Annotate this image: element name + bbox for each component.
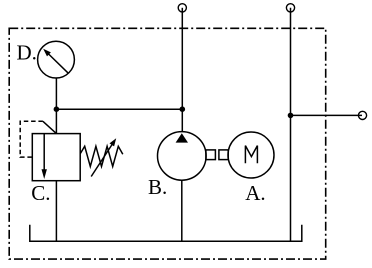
svg-text:C.: C. [31, 181, 50, 205]
wire: valve C outlet to reservoir [55, 181, 57, 242]
relief valve C adjustment arrowhead [110, 138, 117, 146]
svg-text:D.: D. [17, 41, 37, 65]
relief valve C pilot diagonal tap [43, 121, 57, 133]
relief valve C spring [80, 146, 123, 166]
motor A body [228, 132, 274, 178]
port top-right [286, 4, 294, 12]
enclosure boundary (dash-dot frame) [9, 28, 326, 259]
wire: top-right port down to reservoir [290, 8, 292, 242]
wire: pump B outlet to reservoir [181, 180, 183, 241]
relief valve C internal flow arrow [43, 134, 45, 170]
junction at gauge/valve branch [54, 106, 60, 112]
pump B flow triangle [176, 133, 188, 142]
wire: branch to right port [291, 114, 363, 116]
wire: gauge D stem down to valve C inlet [55, 78, 57, 134]
shaft coupling square 2 [219, 150, 228, 160]
relief valve C internal arrowhead [42, 169, 47, 179]
relief valve C body [32, 134, 80, 181]
gauge D body [38, 41, 75, 78]
wire: gauge branch horizontal [56, 108, 182, 110]
wire: top-left port down to pump B inlet [181, 8, 183, 132]
port right [358, 111, 366, 119]
port top-left [178, 4, 186, 12]
svg-text:B.: B. [148, 175, 167, 199]
shaft coupling square 1 [206, 150, 216, 160]
gauge D needle [47, 52, 69, 73]
motor A letter M [245, 146, 257, 164]
svg-text:A.: A. [245, 181, 265, 205]
pump B body [158, 132, 207, 181]
relief valve C pilot line (dashed) [20, 121, 43, 157]
gauge D needle arrowhead [43, 49, 51, 57]
relief valve C adjustment arrow [91, 145, 112, 177]
junction at pump inlet line [180, 106, 186, 112]
reservoir (open tank) [30, 225, 302, 242]
junction at right port branch [288, 113, 294, 119]
